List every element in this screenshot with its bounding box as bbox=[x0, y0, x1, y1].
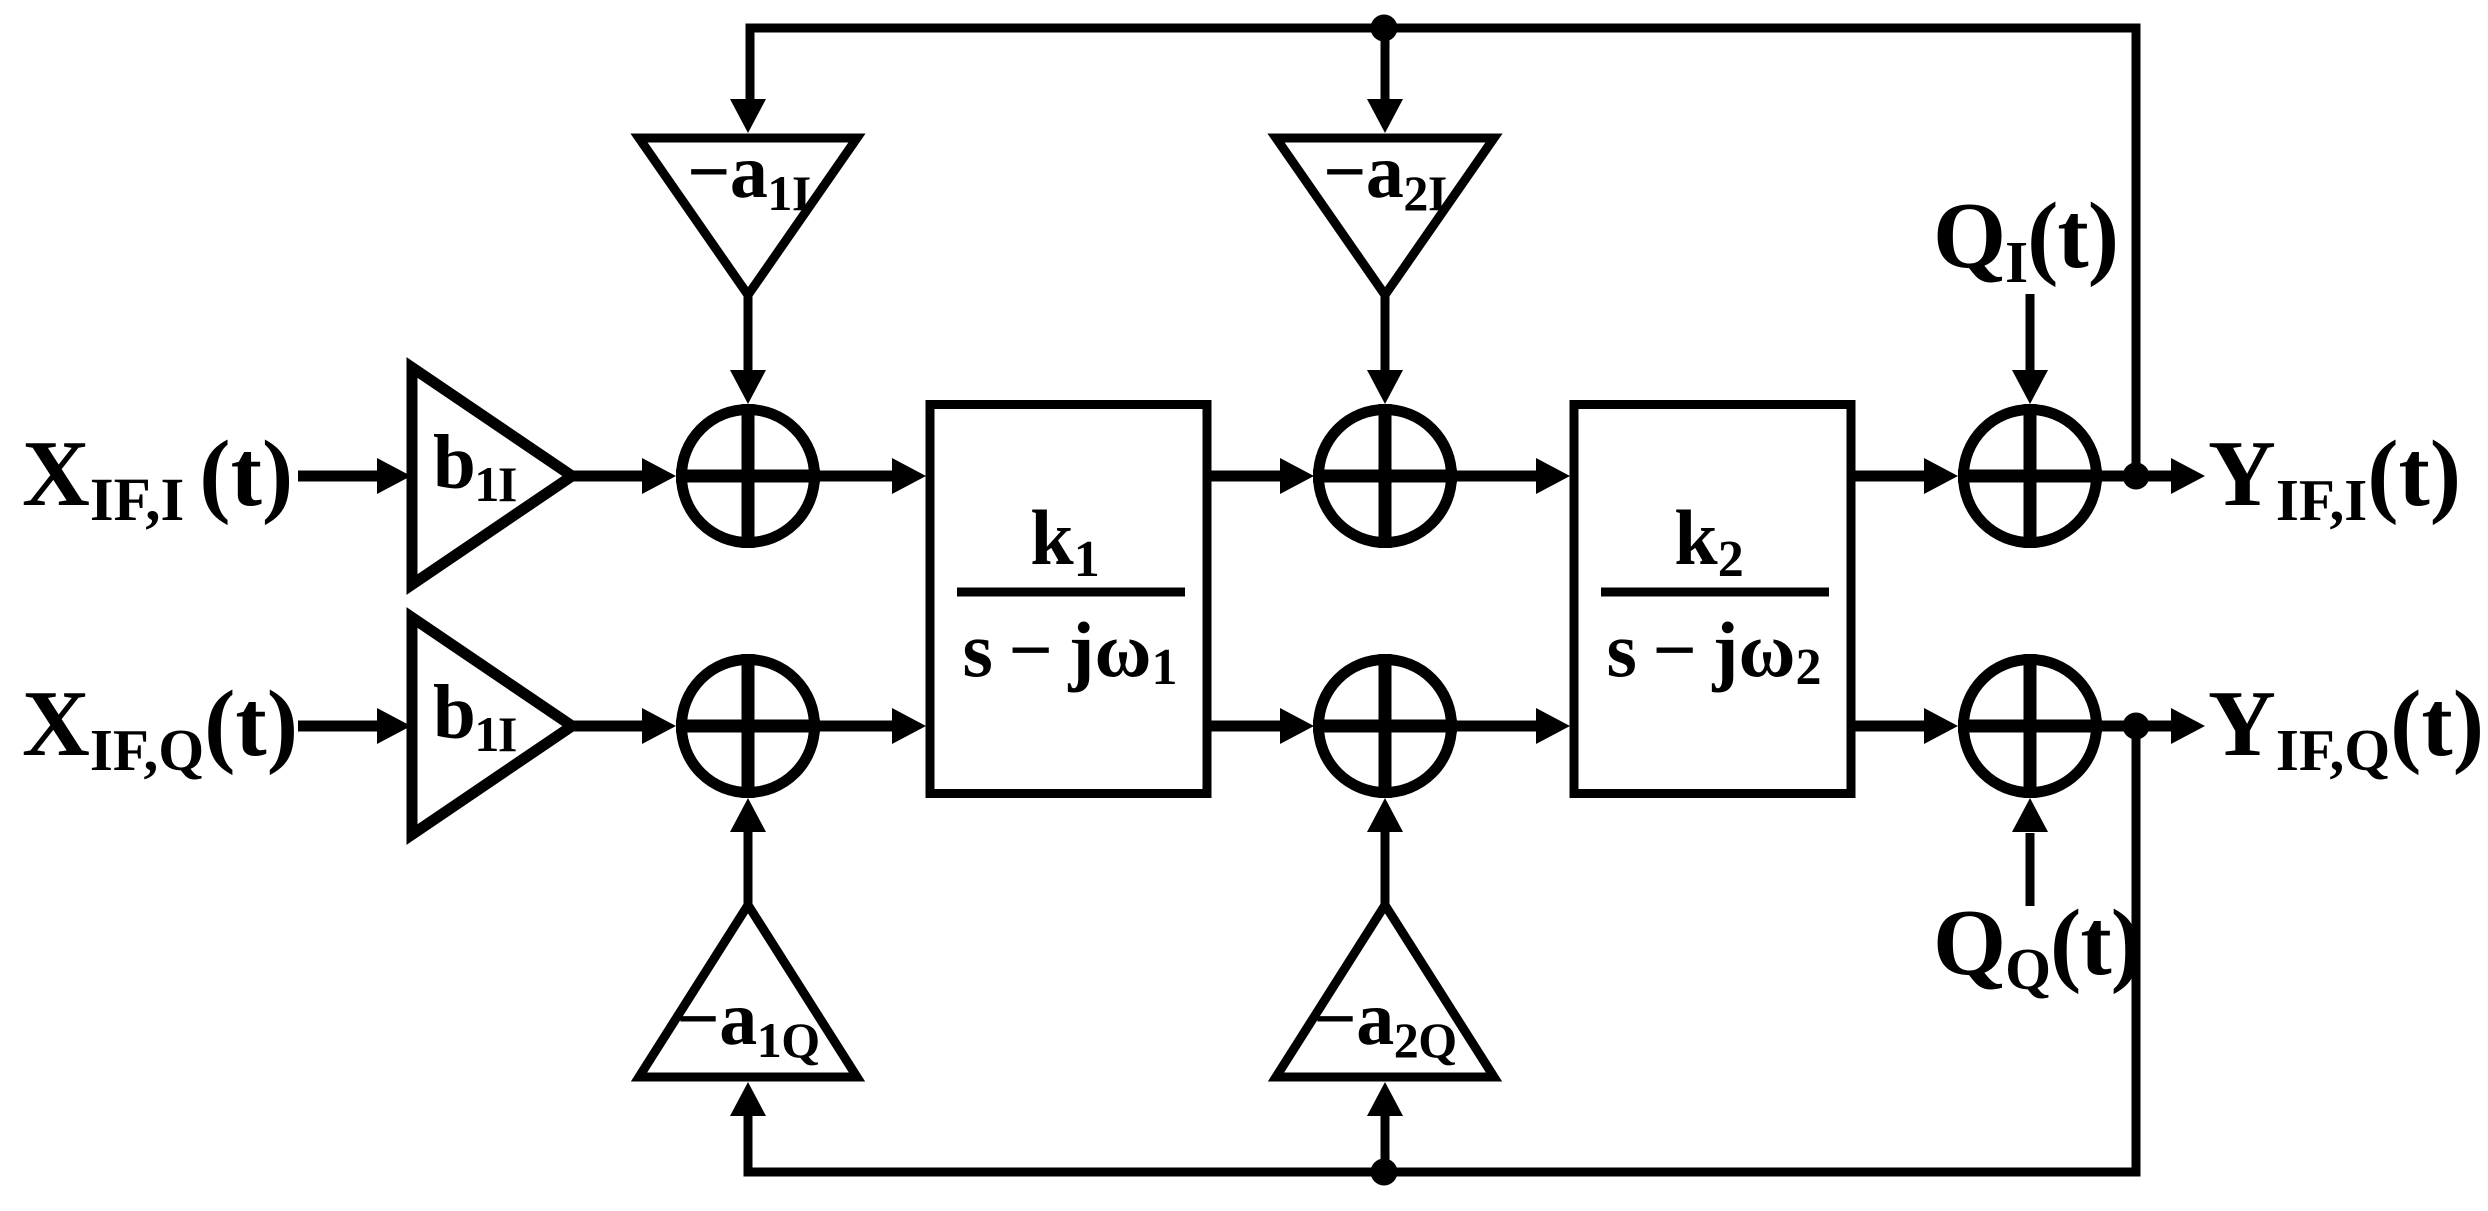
node Q_Q input label bbox=[1933, 891, 2141, 1002]
summer S2Q bbox=[1319, 660, 1452, 793]
wire: summer S3I to output Y_IF,I bbox=[2102, 471, 2173, 482]
summer S1Q bbox=[682, 660, 815, 793]
wire: gain -a1Q to summer S1Q bbox=[744, 832, 753, 905]
summer S3Q bbox=[1964, 660, 2097, 793]
wire: bottom feedback net from node B down-left to gain -a1Q bbox=[748, 726, 2136, 1172]
gain -a2I bbox=[1276, 138, 1494, 295]
wire: gain -a2Q to summer S2Q bbox=[1381, 832, 1390, 905]
wire: X_IF,I input to gain b1I row I bbox=[298, 471, 377, 482]
wire: X_IF,Q input to gain b1I row Q bbox=[298, 721, 377, 732]
gain -a1I bbox=[639, 138, 857, 295]
wire: summer S2Q to block H2 row Q bbox=[1457, 721, 1539, 732]
gain b1I (row Q) bbox=[412, 618, 572, 835]
wire: block H1 to summer S2I bbox=[1207, 471, 1283, 482]
wire: block H2 to summer S3Q bbox=[1851, 721, 1927, 732]
junction node D on bottom feedback net bbox=[1371, 1159, 1398, 1186]
wire: gain b1I to summer S1I bbox=[572, 471, 645, 482]
block H1: k1/(s-jw1) bbox=[930, 405, 1207, 794]
wire: bottom feedback branch to gain -a2Q bbox=[1381, 1116, 1390, 1172]
wire: summer S1Q to block H1 row Q bbox=[820, 721, 895, 732]
node X_IF,I input label bbox=[22, 422, 293, 534]
node X_IF,Q input label bbox=[22, 672, 298, 783]
wire: block H1 to summer S2Q bbox=[1207, 721, 1283, 732]
wire: gain b1I to summer S1Q bbox=[572, 721, 645, 732]
node Y_IF,Q output label bbox=[2208, 672, 2484, 783]
wire: summer S2I to block H2 row I bbox=[1457, 471, 1539, 482]
svg-text:s − jω1: s − jω1 bbox=[962, 606, 1177, 696]
junction node on Y_IF,I output bbox=[2123, 463, 2150, 490]
wire: summer S1I to block H1 row I bbox=[820, 471, 895, 482]
gain -a1Q bbox=[639, 905, 857, 1077]
svg-text:s − jω2: s − jω2 bbox=[1606, 606, 1821, 696]
node Q_I input label bbox=[1933, 184, 2118, 295]
gain b1I (row I) bbox=[412, 368, 572, 585]
wire: Q_Q input to summer S3Q bbox=[2026, 833, 2035, 906]
node Y_IF,I output label bbox=[2208, 422, 2461, 533]
gain -a2Q bbox=[1276, 905, 1494, 1077]
wire: gain -a1I to summer S1I bbox=[744, 295, 753, 371]
summer S2I bbox=[1319, 410, 1452, 543]
summer S1I bbox=[682, 410, 815, 543]
block H2: k2/(s-jw2) bbox=[1574, 405, 1851, 794]
summer S3I bbox=[1964, 410, 2097, 543]
junction node on Y_IF,Q output bbox=[2123, 713, 2150, 740]
wire: block H2 to summer S3I bbox=[1851, 471, 1927, 482]
wire: top feedback net from node A down-left to gain -a1I bbox=[750, 28, 2136, 476]
wire: top feedback branch to gain -a2I bbox=[1381, 28, 1390, 100]
wire: summer S3Q to output Y_IF,Q bbox=[2102, 721, 2173, 732]
junction node C on top feedback net bbox=[1371, 15, 1398, 42]
wire: gain -a2I to summer S2I bbox=[1381, 295, 1390, 371]
wire: Q_I input to summer S3I bbox=[2026, 294, 2035, 371]
